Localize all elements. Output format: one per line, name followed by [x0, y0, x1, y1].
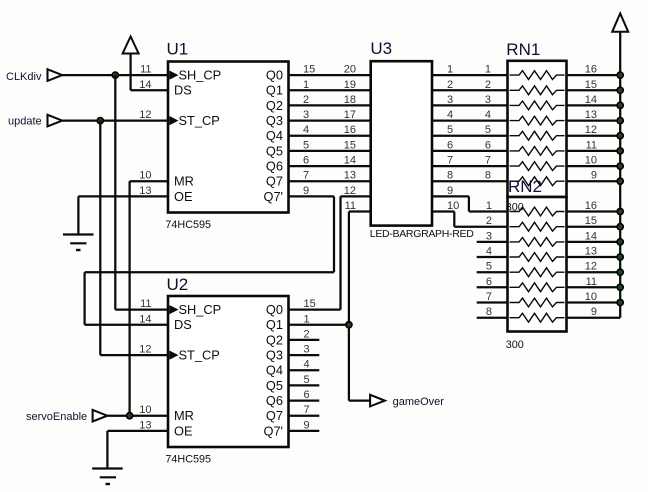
svg-text:5: 5 [447, 124, 453, 136]
U1 pin numbers left 11 14 12 10 13 [139, 64, 151, 197]
power symbol VCC arrow (right rail) [612, 13, 628, 317]
svg-text:gameOver: gameOver [393, 396, 445, 408]
wire U3 pin 10 jog to RN2 pin 2 [432, 212, 508, 227]
wires U3 pins 1-8 to RN1 pins 1-8 [432, 75, 508, 181]
svg-text:7: 7 [485, 155, 491, 167]
svg-text:update: update [8, 116, 42, 128]
svg-text:2: 2 [485, 79, 491, 91]
svg-text:8: 8 [485, 170, 491, 182]
svg-text:Q5: Q5 [266, 143, 283, 158]
svg-text:6: 6 [303, 155, 309, 167]
label U1 reference [167, 40, 189, 59]
svg-text:Q1: Q1 [266, 83, 283, 98]
svg-text:11: 11 [586, 276, 597, 288]
svg-text:Q7': Q7' [263, 423, 283, 438]
svg-text:ST_CP: ST_CP [179, 348, 220, 363]
wire U2 OE to ground [107, 431, 168, 469]
svg-text:Q0: Q0 [266, 68, 283, 83]
svg-text:Q4: Q4 [266, 128, 283, 143]
wire update branch down to U2 ST_CP [100, 121, 168, 356]
svg-text:13: 13 [139, 419, 151, 431]
wires RN2 right pins 16-9 to VCC rail [567, 212, 621, 318]
svg-text:15: 15 [344, 139, 356, 151]
svg-text:14: 14 [585, 230, 597, 242]
svg-text:OE: OE [174, 423, 193, 438]
svg-text:7: 7 [486, 291, 492, 303]
svg-text:4: 4 [447, 109, 453, 121]
svg-text:5: 5 [485, 124, 491, 136]
wire U3 pin 11 down to U2 Q1 / gameOver net [289, 212, 371, 401]
wire U1 Q7' to U2 DS (serial cascade) [85, 196, 334, 324]
svg-text:15: 15 [585, 215, 597, 227]
svg-text:14: 14 [139, 313, 151, 325]
junction servoEnable node [127, 413, 133, 419]
U1 pin numbers right 15 1 2 3 4 5 6 7 9 [303, 64, 315, 197]
svg-text:16: 16 [585, 200, 597, 212]
svg-text:ST_CP: ST_CP [179, 113, 220, 128]
label U2 reference [167, 275, 189, 294]
ground symbol (U2 OE) [92, 469, 123, 485]
svg-text:Q2: Q2 [266, 332, 283, 347]
LED bargraph U3 box [371, 61, 432, 225]
input terminal CLKdiv [6, 69, 62, 83]
svg-text:10: 10 [139, 170, 151, 182]
svg-text:DS: DS [174, 317, 192, 332]
svg-text:8: 8 [447, 170, 453, 182]
svg-text:9: 9 [304, 419, 310, 431]
wire U1 MR to servoEnable net [130, 181, 168, 416]
svg-text:12: 12 [139, 109, 151, 121]
svg-text:Q5: Q5 [266, 378, 283, 393]
svg-text:1: 1 [447, 64, 453, 76]
wire U2 Q0 up to U3 pin 12 [289, 196, 371, 309]
svg-text:3: 3 [303, 109, 309, 121]
wire net CLKdiv to U1 SH_CP [62, 74, 168, 76]
svg-text:Q3: Q3 [266, 348, 283, 363]
svg-text:MR: MR [174, 174, 194, 189]
U1 pin names right Q0-Q7 Q7' [263, 68, 283, 204]
wire net update to U1 ST_CP [62, 119, 168, 121]
junction update node [97, 118, 103, 124]
svg-text:4: 4 [304, 359, 310, 371]
value label 74HC595 (U1) [165, 219, 211, 231]
svg-text:74HC595: 74HC595 [165, 219, 211, 231]
wires RN1 right pins 16-9 to VCC rail [567, 75, 621, 181]
label RN2 reference [508, 177, 542, 196]
op U1 74HC595 box [168, 62, 289, 213]
svg-text:U1: U1 [167, 40, 189, 59]
svg-text:12: 12 [585, 124, 597, 136]
U2 pin names left [174, 302, 221, 438]
input terminal servoEnable [26, 410, 107, 423]
U1 pin names left [174, 68, 221, 204]
svg-text:7: 7 [304, 404, 310, 416]
svg-text:11: 11 [140, 298, 151, 310]
input terminal update [8, 115, 62, 128]
svg-text:4: 4 [303, 124, 309, 136]
svg-text:U2: U2 [167, 275, 189, 294]
svg-text:14: 14 [344, 155, 356, 167]
svg-text:1: 1 [303, 79, 309, 91]
svg-text:10: 10 [585, 291, 597, 303]
value label 300 (RN2) [506, 339, 524, 351]
U2 unconnected stubs Q2-Q7' [289, 340, 320, 431]
wire CLKdiv branch down to U2 SH_CP [115, 75, 168, 310]
svg-text:SH_CP: SH_CP [179, 68, 222, 83]
U2 pin names right Q0-Q7 Q7' [263, 302, 283, 438]
label RN1 reference [506, 40, 540, 59]
svg-text:10: 10 [139, 404, 151, 416]
svg-text:6: 6 [304, 389, 310, 401]
RN2 pin numbers right 16-9 [585, 200, 597, 318]
svg-text:Q7': Q7' [263, 189, 283, 204]
svg-text:1: 1 [485, 64, 491, 76]
svg-text:DS: DS [174, 83, 192, 98]
resistors RN2 R1-R8 [510, 207, 565, 322]
RN1 pin numbers right 16-9 [585, 64, 597, 182]
svg-text:3: 3 [486, 230, 492, 242]
svg-text:18: 18 [344, 94, 356, 106]
svg-text:6: 6 [447, 139, 453, 151]
svg-text:13: 13 [139, 185, 151, 197]
svg-text:Q7: Q7 [266, 408, 283, 423]
svg-text:6: 6 [485, 139, 491, 151]
svg-text:MR: MR [174, 408, 194, 423]
resistor network RN1 box [508, 61, 567, 197]
RN1 pin numbers left 1-8 [485, 64, 491, 182]
svg-text:15: 15 [304, 298, 316, 310]
U2 pin numbers right 15 1 2 3 4 5 6 7 9 [304, 298, 316, 431]
svg-text:Q0: Q0 [266, 302, 283, 317]
resistor network RN2 box [508, 197, 567, 332]
svg-text:13: 13 [585, 109, 597, 121]
svg-text:4: 4 [486, 246, 492, 258]
svg-text:CLKdiv: CLKdiv [6, 71, 42, 83]
op U2 74HC595 box [168, 296, 289, 447]
svg-text:SH_CP: SH_CP [179, 302, 222, 317]
svg-text:Q4: Q4 [266, 363, 283, 378]
RN2 pin numbers left 1-8 [486, 200, 492, 318]
svg-text:Q2: Q2 [266, 98, 283, 113]
svg-text:12: 12 [344, 185, 356, 197]
wire servoEnable to U2 MR [107, 415, 169, 417]
svg-text:16: 16 [585, 64, 597, 76]
svg-text:9: 9 [591, 170, 597, 182]
svg-text:Q6: Q6 [266, 393, 283, 408]
svg-text:6: 6 [486, 276, 492, 288]
value label LED-BARGRAPH-RED (U3) [370, 228, 474, 240]
wire U1 OE to ground [78, 196, 168, 234]
U2 pin numbers left 11 14 12 10 13 [139, 298, 151, 431]
svg-text:3: 3 [447, 94, 453, 106]
svg-text:9: 9 [591, 306, 597, 318]
svg-text:9: 9 [447, 185, 453, 197]
resistors RN1 R1-R8 [510, 71, 565, 186]
value label 300 (RN1) [506, 202, 524, 214]
value label 74HC595 (U2) [165, 454, 211, 466]
svg-text:11: 11 [345, 200, 356, 212]
svg-text:4: 4 [485, 109, 491, 121]
svg-text:12: 12 [139, 344, 151, 356]
svg-text:2: 2 [486, 215, 492, 227]
svg-text:17: 17 [344, 109, 356, 121]
svg-text:20: 20 [344, 64, 356, 76]
junction U2 Q1 / gameOver node [346, 322, 352, 328]
svg-text:11: 11 [586, 139, 597, 151]
svg-text:3: 3 [304, 344, 310, 356]
ground symbol (U1 OE) [63, 235, 94, 251]
svg-text:2: 2 [304, 328, 310, 340]
svg-text:19: 19 [344, 79, 356, 91]
svg-text:15: 15 [585, 79, 597, 91]
svg-text:1: 1 [304, 313, 310, 325]
svg-text:OE: OE [174, 189, 193, 204]
svg-text:74HC595: 74HC595 [165, 454, 211, 466]
svg-text:12: 12 [585, 261, 597, 273]
svg-text:U3: U3 [370, 39, 392, 58]
svg-text:5: 5 [304, 374, 310, 386]
output terminal gameOver [370, 395, 444, 408]
svg-text:10: 10 [447, 200, 459, 212]
svg-text:11: 11 [140, 64, 151, 76]
wire VCC to U1 DS [131, 89, 168, 91]
svg-text:1: 1 [486, 200, 492, 212]
svg-text:14: 14 [585, 94, 597, 106]
svg-text:13: 13 [585, 246, 597, 258]
svg-text:5: 5 [486, 261, 492, 273]
svg-text:9: 9 [303, 185, 309, 197]
svg-text:Q3: Q3 [266, 113, 283, 128]
svg-text:10: 10 [585, 155, 597, 167]
svg-text:7: 7 [447, 155, 453, 167]
svg-text:LED-BARGRAPH-RED: LED-BARGRAPH-RED [370, 228, 474, 240]
svg-text:3: 3 [485, 94, 491, 106]
svg-text:8: 8 [486, 306, 492, 318]
svg-text:15: 15 [303, 64, 315, 76]
svg-text:servoEnable: servoEnable [26, 411, 87, 423]
U3 pin numbers right 1-10 [447, 64, 459, 212]
svg-text:300: 300 [506, 339, 524, 351]
wires U1 Q0-Q7 to U3 pins 20-13 [289, 75, 371, 181]
junction CLKdiv node [112, 72, 118, 78]
svg-text:RN2: RN2 [508, 177, 542, 196]
power symbol VCC arrow (left) [123, 37, 139, 91]
svg-text:Q7: Q7 [266, 174, 283, 189]
svg-text:7: 7 [303, 170, 309, 182]
svg-text:2: 2 [447, 79, 453, 91]
svg-text:16: 16 [344, 124, 356, 136]
svg-text:5: 5 [303, 139, 309, 151]
junctions on VCC rail [617, 72, 623, 306]
svg-text:13: 13 [344, 170, 356, 182]
wire U3 pin 9 jog to RN2 pin 1 [432, 196, 508, 211]
svg-text:14: 14 [139, 79, 151, 91]
RN2 unconnected stubs pins 3-8 [477, 242, 508, 318]
U3 pin numbers left 20-12 and 11 [344, 64, 356, 212]
svg-text:Q6: Q6 [266, 159, 283, 174]
label U3 reference [370, 39, 392, 58]
svg-text:2: 2 [303, 94, 309, 106]
svg-text:Q1: Q1 [266, 317, 283, 332]
svg-text:RN1: RN1 [506, 40, 540, 59]
